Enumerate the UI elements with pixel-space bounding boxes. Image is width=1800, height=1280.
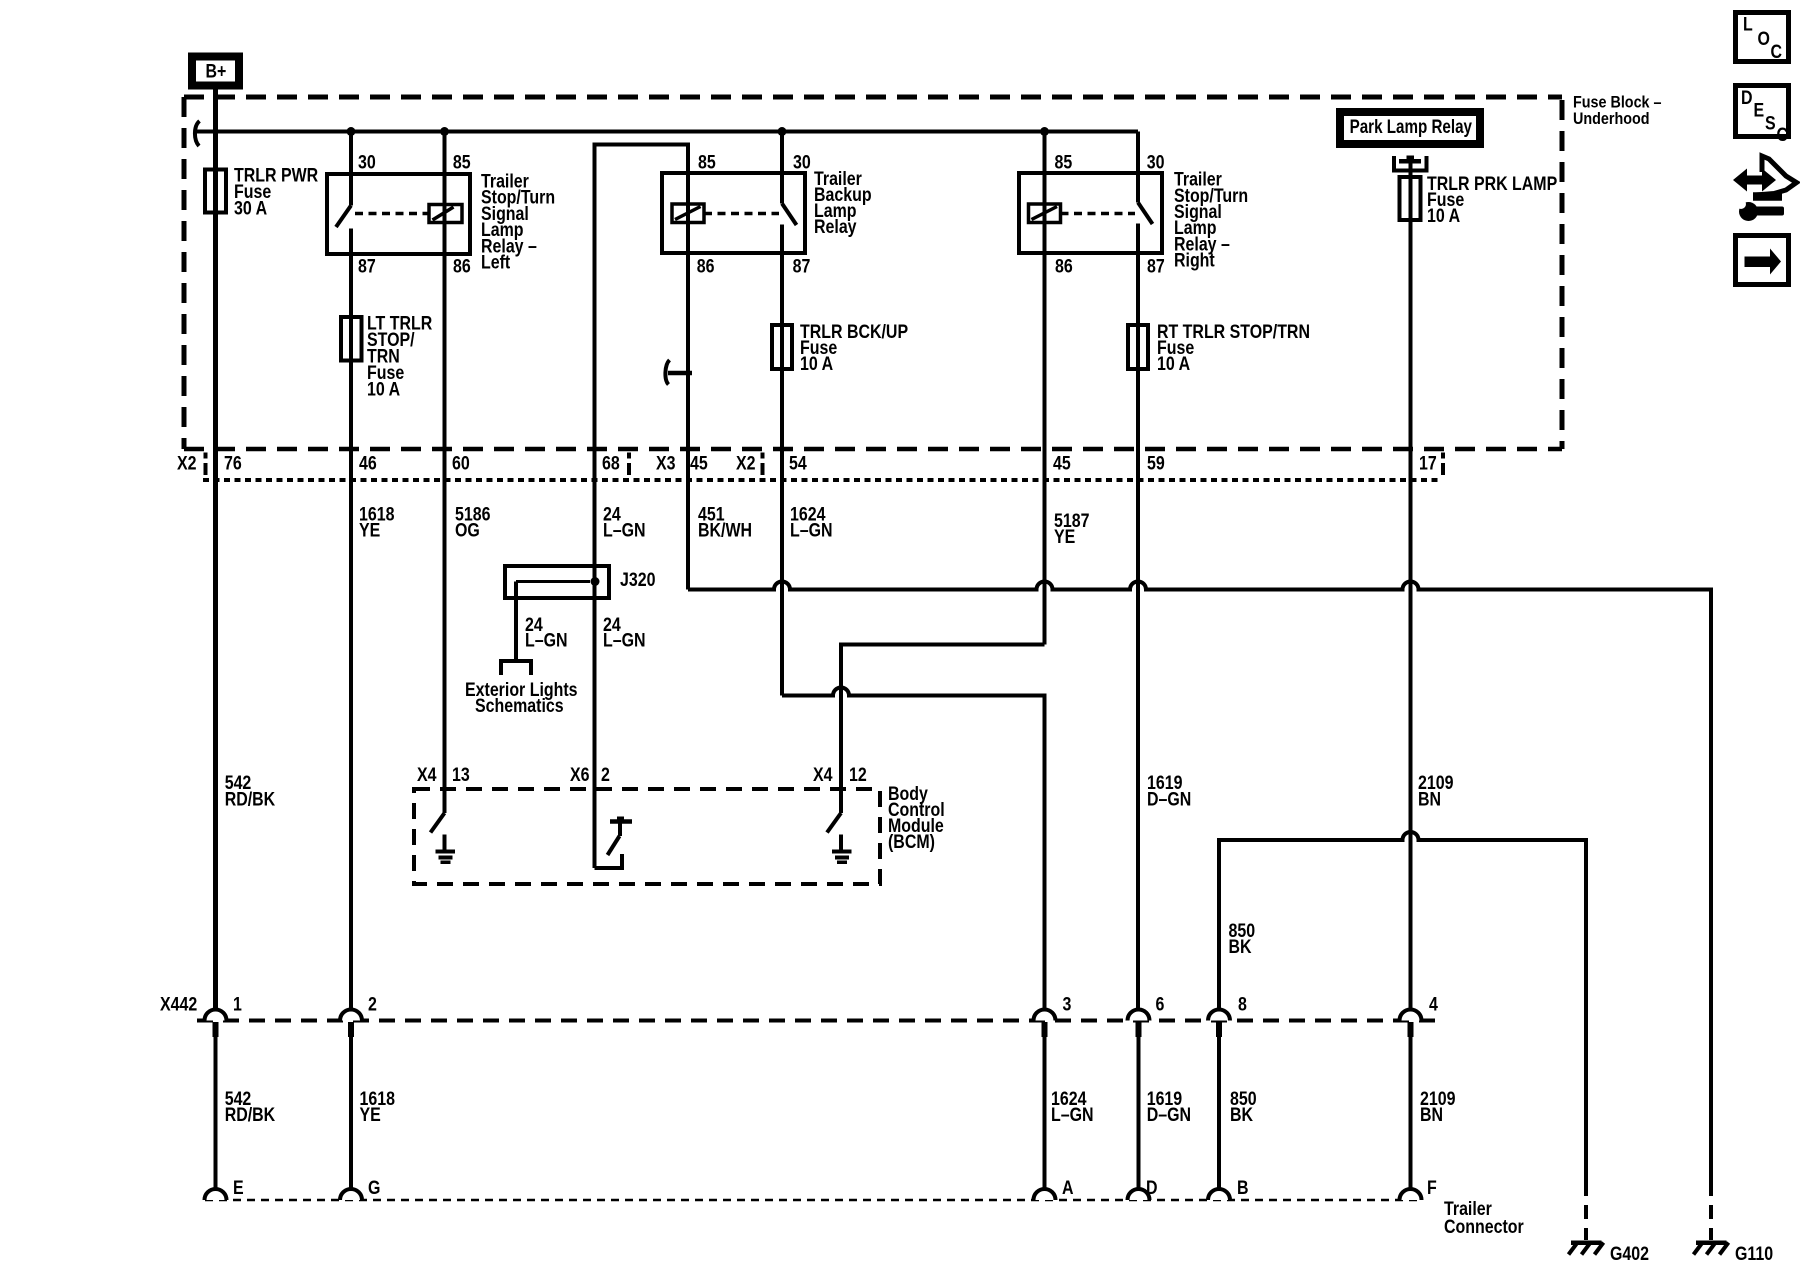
svg-text:Right: Right [1174,249,1215,271]
svg-text:Schematics: Schematics [475,695,564,717]
svg-text:X2: X2 [177,452,197,474]
svg-text:86: 86 [1055,255,1073,277]
svg-text:YE: YE [360,1104,382,1126]
svg-text:X442: X442 [160,993,197,1015]
svg-text:X4: X4 [813,763,833,785]
svg-text:3: 3 [1063,993,1072,1015]
svg-text:OG: OG [455,519,480,541]
svg-text:30: 30 [793,151,811,173]
svg-text:L–GN: L–GN [603,629,646,651]
svg-text:S: S [1765,112,1776,134]
svg-text:86: 86 [697,255,715,277]
svg-text:BN: BN [1420,1104,1443,1126]
svg-text:X4: X4 [417,763,437,785]
svg-text:10 A: 10 A [1427,205,1460,227]
svg-text:10 A: 10 A [1157,353,1190,375]
svg-text:D: D [1741,87,1753,109]
svg-text:J320: J320 [620,569,656,591]
svg-text:L–GN: L–GN [790,519,833,541]
svg-text:68: 68 [602,452,620,474]
svg-text:76: 76 [224,452,242,474]
svg-text:30: 30 [1147,151,1165,173]
svg-text:10 A: 10 A [367,378,400,400]
svg-text:60: 60 [452,452,470,474]
svg-text:Connector: Connector [1444,1216,1524,1238]
svg-text:85: 85 [453,151,471,173]
svg-text:B: B [1237,1177,1249,1199]
svg-text:D–GN: D–GN [1147,1104,1191,1126]
svg-text:13: 13 [452,763,470,785]
svg-text:BK/WH: BK/WH [698,519,752,541]
svg-text:D: D [1146,1177,1158,1199]
svg-text:45: 45 [1053,452,1071,474]
svg-text:(BCM): (BCM) [888,831,935,853]
svg-text:X3: X3 [656,452,676,474]
svg-text:45: 45 [690,452,708,474]
svg-text:30: 30 [358,151,376,173]
svg-text:10 A: 10 A [800,353,833,375]
svg-text:12: 12 [849,763,867,785]
svg-text:F: F [1427,1177,1437,1199]
svg-text:8: 8 [1238,993,1247,1015]
svg-text:17: 17 [1419,452,1437,474]
svg-text:87: 87 [1147,255,1165,277]
svg-text:L–GN: L–GN [603,519,646,541]
svg-text:C: C [1771,41,1783,63]
svg-text:BN: BN [1418,788,1441,810]
svg-text:87: 87 [793,255,811,277]
svg-text:L–GN: L–GN [525,629,568,651]
svg-text:G110: G110 [1735,1243,1773,1265]
svg-text:G402: G402 [1610,1243,1649,1265]
svg-text:54: 54 [789,452,807,474]
svg-text:2: 2 [601,763,610,785]
svg-text:59: 59 [1147,452,1165,474]
svg-text:D–GN: D–GN [1147,788,1191,810]
svg-text:BK: BK [1229,936,1252,958]
svg-text:4: 4 [1429,993,1438,1015]
svg-text:85: 85 [1055,151,1073,173]
svg-text:Left: Left [481,251,510,273]
svg-text:B+: B+ [206,60,227,82]
svg-text:86: 86 [453,255,471,277]
svg-text:YE: YE [359,519,381,541]
svg-text:6: 6 [1156,993,1165,1015]
svg-text:46: 46 [359,452,377,474]
svg-text:87: 87 [358,255,376,277]
svg-text:O: O [1758,28,1770,50]
svg-text:E: E [1754,99,1765,121]
svg-text:Park Lamp Relay: Park Lamp Relay [1350,115,1473,137]
svg-text:2: 2 [368,993,377,1015]
svg-text:L–GN: L–GN [1051,1104,1094,1126]
svg-text:G: G [368,1177,380,1199]
svg-text:Underhood: Underhood [1573,110,1649,128]
svg-text:L: L [1743,13,1753,35]
svg-text:C: C [1777,124,1789,146]
svg-text:BK: BK [1230,1104,1253,1126]
svg-text:Relay: Relay [814,216,857,238]
svg-text:X6: X6 [570,763,590,785]
svg-text:RD/BK: RD/BK [225,788,276,810]
svg-text:E: E [233,1177,244,1199]
svg-text:85: 85 [698,151,716,173]
svg-text:A: A [1062,1177,1074,1199]
svg-text:RD/BK: RD/BK [225,1104,276,1126]
svg-text:30 A: 30 A [234,197,267,219]
svg-text:YE: YE [1054,526,1076,548]
svg-text:X2: X2 [736,452,756,474]
svg-text:1: 1 [233,993,242,1015]
